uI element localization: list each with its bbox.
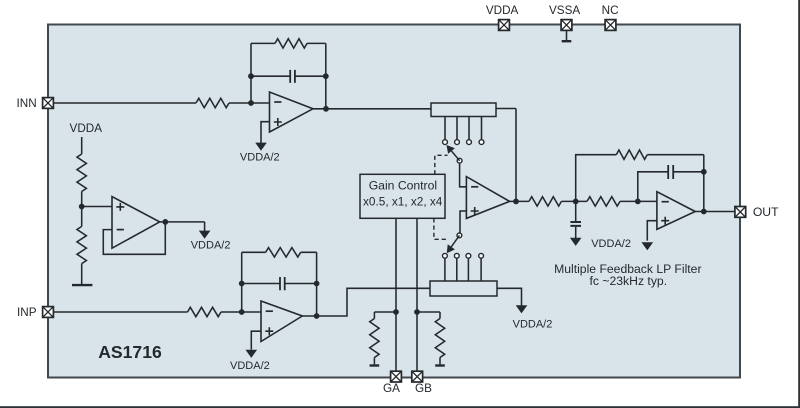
svg-text:VDDA/2: VDDA/2 — [230, 360, 270, 372]
svg-text:VDDA/2: VDDA/2 — [191, 239, 231, 251]
svg-text:GA: GA — [383, 382, 400, 395]
svg-text:OUT: OUT — [753, 205, 779, 219]
svg-text:AS1716: AS1716 — [98, 342, 162, 362]
svg-text:VDDA: VDDA — [70, 122, 103, 135]
svg-text:VSSA: VSSA — [549, 4, 580, 17]
svg-text:INN: INN — [17, 97, 37, 110]
svg-text:x0.5, x1, x2, x4: x0.5, x1, x2, x4 — [363, 194, 443, 208]
svg-text:fc ~23kHz typ.: fc ~23kHz typ. — [590, 274, 668, 288]
svg-text:VDDA/2: VDDA/2 — [591, 238, 631, 250]
svg-text:NC: NC — [602, 4, 619, 17]
svg-text:VDDA/2: VDDA/2 — [240, 152, 280, 164]
svg-text:Gain Control: Gain Control — [369, 178, 437, 192]
svg-text:VDDA: VDDA — [486, 4, 519, 17]
svg-text:INP: INP — [17, 306, 37, 319]
svg-text:VDDA/2: VDDA/2 — [513, 318, 553, 330]
svg-text:GB: GB — [415, 382, 432, 395]
